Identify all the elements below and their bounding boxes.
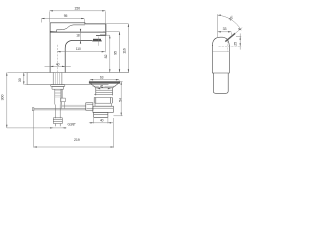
svg-text:219: 219: [74, 138, 80, 142]
svg-text:110: 110: [76, 47, 81, 51]
svg-text:95: 95: [114, 51, 118, 55]
svg-text:40: 40: [100, 119, 104, 123]
svg-text:150: 150: [74, 7, 80, 11]
svg-text:116: 116: [122, 48, 126, 54]
svg-text:18: 18: [76, 34, 80, 38]
svg-text:63: 63: [100, 76, 104, 80]
svg-text:35°: 35°: [228, 15, 235, 22]
svg-text:82: 82: [104, 55, 108, 59]
svg-text:33: 33: [223, 27, 227, 31]
svg-text:40: 40: [56, 63, 60, 67]
svg-text:95: 95: [64, 14, 68, 18]
svg-text:25: 25: [233, 42, 237, 46]
svg-text:G3/8": G3/8": [67, 123, 76, 127]
svg-text:300: 300: [1, 95, 5, 101]
svg-text:45: 45: [100, 85, 104, 89]
svg-text:30: 30: [18, 78, 22, 82]
svg-text:54: 54: [119, 98, 123, 102]
